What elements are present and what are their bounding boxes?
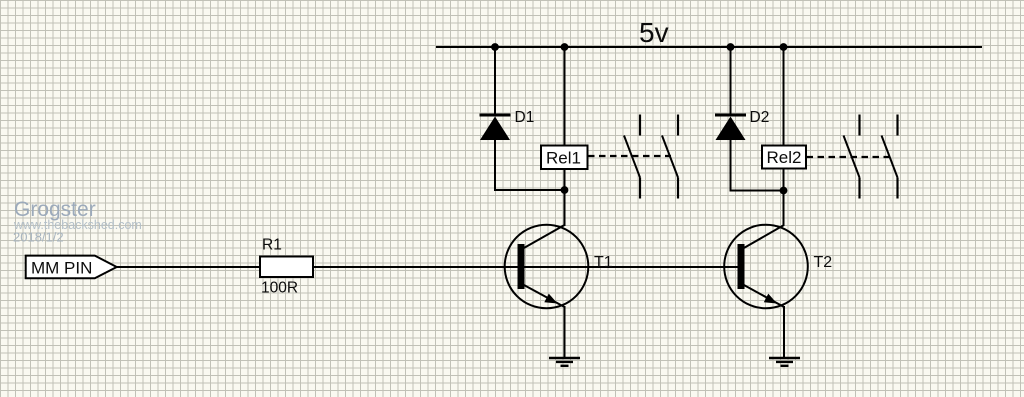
transistor T1 bbox=[505, 225, 589, 309]
watermark Grogster bbox=[13, 198, 142, 245]
svg-text:D2: D2 bbox=[750, 109, 770, 126]
wire T2 emitter to ground bbox=[783, 306, 785, 358]
relay contact S1b bbox=[662, 115, 678, 199]
wire rail to Rel2 bbox=[783, 47, 785, 146]
svg-text:100R: 100R bbox=[261, 280, 298, 297]
svg-text:5v: 5v bbox=[639, 17, 669, 48]
wire Rel2 to collector node bbox=[783, 169, 785, 191]
node junction on rail (Rel1 branch) bbox=[561, 43, 569, 51]
relay coil Rel1 bbox=[541, 146, 588, 170]
node junction on rail (D1 branch) bbox=[491, 43, 499, 51]
wire rail to Rel1 bbox=[564, 47, 566, 146]
dashed link Rel2 to contacts bbox=[807, 156, 891, 158]
relay contact S2b bbox=[882, 115, 898, 199]
input flag MM PIN bbox=[26, 256, 117, 279]
svg-text:2018/1/2: 2018/1/2 bbox=[13, 230, 64, 245]
resistor R1 bbox=[260, 257, 313, 278]
node junction on rail (Rel2 branch) bbox=[780, 43, 788, 51]
wire Rel1 to collector node bbox=[564, 169, 566, 190]
diode D1 bbox=[480, 115, 511, 140]
svg-text:T1: T1 bbox=[594, 254, 613, 271]
svg-text:R1: R1 bbox=[262, 237, 282, 254]
svg-text:Rel2: Rel2 bbox=[767, 148, 802, 167]
wire D2 anode down bbox=[730, 140, 732, 191]
wire collector node to T2 bbox=[783, 191, 785, 227]
svg-text:Rel1: Rel1 bbox=[546, 149, 581, 168]
node junction on rail (D2 branch) bbox=[727, 43, 735, 51]
node junction collector T1 bbox=[561, 186, 569, 194]
wire D2 to collector node bbox=[730, 190, 784, 192]
ground below T1 bbox=[549, 358, 580, 366]
wire rail to D1 cathode bbox=[494, 47, 496, 115]
wire R1 to T2 base (through T1 base) bbox=[313, 266, 739, 268]
svg-text:T2: T2 bbox=[814, 254, 833, 271]
relay contact S1a bbox=[624, 115, 640, 199]
wire rail to D2 cathode bbox=[730, 47, 732, 115]
wire D1 anode down bbox=[494, 140, 496, 190]
wire MM PIN to R1 bbox=[117, 266, 260, 268]
dashed link Rel1 to contacts bbox=[588, 155, 671, 157]
svg-text:MM PIN: MM PIN bbox=[31, 259, 92, 278]
diode D2 bbox=[715, 115, 746, 140]
node junction collector T2 bbox=[780, 187, 788, 195]
wire D1 to collector node bbox=[494, 189, 565, 191]
wire collector node to T1 bbox=[564, 190, 566, 226]
transistor T2 bbox=[724, 225, 808, 309]
relay coil Rel2 bbox=[762, 146, 806, 169]
5v power rail wire bbox=[436, 46, 982, 48]
relay contact S2a bbox=[844, 115, 860, 199]
ground below T2 bbox=[769, 358, 800, 366]
wire T1 emitter to ground bbox=[564, 306, 566, 358]
svg-text:D1: D1 bbox=[515, 109, 535, 126]
